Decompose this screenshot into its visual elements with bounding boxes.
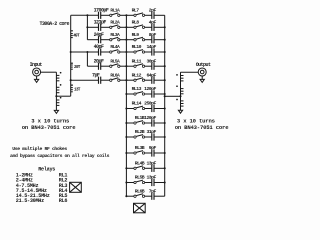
svg-text:on BN43-7051 core: on BN43-7051 core <box>22 124 77 131</box>
capacitor 30pF RL11 <box>152 63 154 70</box>
relay contact RL13 <box>134 92 145 96</box>
relay contact RL2B <box>134 135 145 139</box>
svg-text:123pF: 123pF <box>94 20 107 26</box>
phase dot T1b <box>60 84 62 86</box>
wire <box>145 167 152 169</box>
wire T1 tap to L1 bottom <box>56 95 70 97</box>
wire <box>154 152 165 154</box>
capacitor 64pF RL12 <box>152 77 154 84</box>
svg-text:40pF: 40pF <box>94 44 104 50</box>
wire <box>101 14 110 16</box>
transformer T2 windings 3 x 10 turns <box>181 76 184 107</box>
relay contact RL4B <box>134 166 145 170</box>
wire row 5 left <box>87 65 98 67</box>
phase dot T1c <box>60 97 62 99</box>
capacitor 13pF RL5B <box>152 179 154 186</box>
wire <box>120 14 127 16</box>
wire <box>145 136 152 138</box>
capacitor 24pF RL3A <box>99 36 101 43</box>
wire <box>154 182 165 184</box>
wire <box>154 39 165 41</box>
relay contact RL5B <box>134 180 145 184</box>
svg-text:64pF: 64pF <box>146 72 156 78</box>
capacitor 7pF RL6B <box>152 193 154 200</box>
wire <box>120 51 127 53</box>
phase dot T1a <box>60 72 62 74</box>
svg-text:49T: 49T <box>73 35 80 39</box>
bus middle <box>125 15 127 196</box>
svg-text:31pF: 31pF <box>146 129 156 135</box>
wire row 3 left <box>87 39 98 41</box>
inductor L1 13T winding <box>71 88 73 92</box>
svg-text:RL8: RL8 <box>132 20 140 26</box>
wire <box>120 39 127 41</box>
relay contact RL4A <box>110 50 120 54</box>
svg-text:RL5B: RL5B <box>135 175 145 181</box>
svg-text:2pF: 2pF <box>149 8 157 14</box>
capacitor 120pF RL1B <box>152 119 154 126</box>
capacitor 123pF RL2A <box>99 24 101 31</box>
svg-text:RL3A: RL3A <box>110 32 120 38</box>
svg-text:7pF: 7pF <box>149 188 157 194</box>
ground (output) <box>200 79 204 82</box>
relay coil box 1 <box>70 182 82 192</box>
svg-text:RL9: RL9 <box>132 32 140 38</box>
wire T2 winding line <box>180 72 182 110</box>
wire row 2 left <box>87 26 98 28</box>
relay contact RL11 <box>134 64 145 68</box>
wire <box>145 65 152 67</box>
capacitor 250pF RL14 <box>152 105 154 112</box>
capacitor 31pF RL2B <box>152 133 154 140</box>
wire <box>145 182 152 184</box>
wire <box>154 195 165 197</box>
svg-text:14pF: 14pF <box>146 44 156 50</box>
bus left upper <box>86 15 88 39</box>
output connector J2 <box>198 68 206 79</box>
wire <box>154 65 165 67</box>
wire <box>145 93 152 95</box>
wire <box>154 167 165 169</box>
wire <box>145 51 152 53</box>
svg-text:RL6B: RL6B <box>135 188 145 194</box>
phase dot T2a <box>176 74 178 76</box>
relay contact RL6A <box>110 78 120 82</box>
wire row 13 middle <box>126 182 134 184</box>
svg-text:13pF: 13pF <box>146 175 156 181</box>
phase dot 20T <box>71 62 73 64</box>
ground (T2) <box>178 110 182 113</box>
wire <box>145 108 152 110</box>
wire row 6 middle <box>126 79 134 81</box>
wire row 6 left <box>71 79 99 81</box>
wire row 7 middle <box>126 93 134 95</box>
wire <box>154 26 165 28</box>
wire row 9 middle <box>126 122 134 124</box>
wire <box>145 152 152 154</box>
wire row 10 middle <box>126 136 134 138</box>
relay contact RL12 <box>134 78 145 82</box>
wire row 3 middle <box>126 39 134 41</box>
phase dot 49T <box>71 30 73 32</box>
relay contact RL1B <box>134 121 145 125</box>
wire <box>154 14 165 16</box>
svg-text:and bypass capacitors on all r: and bypass capacitors on all relay coils <box>10 153 110 159</box>
bus right <box>164 15 166 196</box>
wire row 4 left <box>71 51 99 53</box>
svg-text:13pF: 13pF <box>146 161 156 167</box>
wire <box>120 65 127 67</box>
svg-text:Output: Output <box>196 62 211 68</box>
relay contact RL9 <box>134 37 145 41</box>
wire <box>145 79 152 81</box>
wire <box>154 136 165 138</box>
svg-text:RL2A: RL2A <box>110 20 120 26</box>
relay contact RL10 <box>134 50 145 54</box>
wire row 11 middle <box>126 152 134 154</box>
wire <box>101 79 110 81</box>
svg-text:4pF: 4pF <box>149 20 157 26</box>
node T2 tap <box>179 95 181 97</box>
relay coil box 2 <box>134 203 146 213</box>
svg-text:RL3B: RL3B <box>135 145 145 151</box>
svg-text:Relays: Relays <box>38 167 55 173</box>
svg-text:250pF: 250pF <box>144 101 156 107</box>
relay contact RL8 <box>134 25 145 29</box>
wire <box>154 93 165 95</box>
svg-text:21.5-30MHz: 21.5-30MHz <box>16 198 44 204</box>
svg-text:9pF: 9pF <box>149 145 157 151</box>
svg-text:RL12: RL12 <box>132 72 142 78</box>
wire input to T1 <box>41 71 57 73</box>
wire row 2 middle <box>126 26 134 28</box>
relay contact RL6B <box>134 194 145 198</box>
svg-text:T300A-2 core: T300A-2 core <box>40 21 70 27</box>
capacitor 13pF RL4B <box>152 165 154 172</box>
svg-text:RL2B: RL2B <box>135 129 145 135</box>
svg-text:13T: 13T <box>74 88 81 92</box>
relay contact RL1A <box>110 13 120 17</box>
svg-text:8pF: 8pF <box>149 32 157 38</box>
svg-text:RL6A: RL6A <box>110 72 120 78</box>
relay contact RL14 <box>134 106 145 110</box>
node T1 tap <box>55 95 57 97</box>
wire <box>154 79 165 81</box>
svg-text:on BN43-7051 core: on BN43-7051 core <box>175 124 230 131</box>
capacitor 40pF RL4A <box>99 48 101 55</box>
svg-text:RL5A: RL5A <box>110 58 120 64</box>
capacitor 8pF RL9 <box>152 36 154 43</box>
wire row 14 middle <box>126 195 134 197</box>
svg-text:RL11: RL11 <box>132 58 142 64</box>
relay contact RL2A <box>110 25 120 29</box>
capacitor 9pF RL3B <box>152 149 154 156</box>
svg-text:1700pF: 1700pF <box>94 8 109 14</box>
wire <box>145 14 152 16</box>
svg-text:Use multiple RF chokes: Use multiple RF chokes <box>12 146 67 152</box>
relay contact RL3B <box>134 151 145 155</box>
wire T2 to output <box>181 71 199 73</box>
wire row 4 middle <box>126 51 134 53</box>
wire <box>145 122 152 124</box>
svg-text:RL4A: RL4A <box>110 44 120 50</box>
wire row 8 middle <box>126 108 134 110</box>
relay frequency table <box>16 167 68 204</box>
svg-text:RL13: RL13 <box>132 86 142 92</box>
wire <box>101 65 110 67</box>
capacitor 14pF RL10 <box>152 48 154 55</box>
inductor L1 vertical line T300A-2 <box>70 15 72 96</box>
svg-text:20T: 20T <box>74 66 81 70</box>
inductor L1 20T winding <box>71 65 73 69</box>
capacitor 4pF RL8 <box>152 24 154 31</box>
wire row 1 left <box>71 14 99 16</box>
svg-text:RL10: RL10 <box>132 44 142 50</box>
svg-text:24pF: 24pF <box>94 32 104 38</box>
relay contact RL3A <box>110 37 120 41</box>
wire row 1 middle <box>126 14 134 16</box>
relay contact RL5A <box>110 64 120 68</box>
svg-text:30pF: 30pF <box>146 58 156 64</box>
phase dot 13T <box>71 84 73 86</box>
svg-text:RL4B: RL4B <box>135 161 145 167</box>
svg-text:RL14: RL14 <box>132 101 142 107</box>
wire <box>101 51 110 53</box>
svg-text:RL1A: RL1A <box>110 8 120 14</box>
capacitor 1700pF RL1A <box>99 12 101 19</box>
svg-text:RL7: RL7 <box>132 8 140 14</box>
wire <box>101 39 110 41</box>
transformer T1 windings 3 x 10 turns <box>56 75 59 105</box>
input connector J1 <box>33 68 41 79</box>
wire <box>145 26 152 28</box>
svg-text:RL6: RL6 <box>59 198 68 204</box>
phase dot T2c <box>176 99 178 101</box>
wire row 5 middle <box>126 65 134 67</box>
capacitor 20pF RL5A <box>99 63 101 70</box>
svg-text:20pF: 20pF <box>94 58 104 64</box>
capacitor 7pF RL6A <box>99 77 101 84</box>
svg-text:Input: Input <box>30 62 43 68</box>
svg-text:120pF: 120pF <box>144 86 156 92</box>
relay contact RL7 <box>134 13 145 17</box>
bus left lower <box>86 52 88 66</box>
svg-text:7pF: 7pF <box>92 72 100 78</box>
capacitor 2pF RL7 <box>152 12 154 19</box>
wire row 12 middle <box>126 167 134 169</box>
wire <box>154 122 165 124</box>
wire <box>145 195 152 197</box>
wire <box>145 39 152 41</box>
wire <box>120 79 127 81</box>
wire <box>154 108 165 110</box>
capacitor 120pF RL13 <box>152 90 154 97</box>
ground (input) <box>35 79 39 82</box>
node dots <box>70 51 72 53</box>
wire <box>154 51 165 53</box>
wire <box>101 26 110 28</box>
ground (T1) <box>54 110 58 113</box>
wire <box>120 26 127 28</box>
wire bus to T2 tap <box>165 95 181 97</box>
inductor L1 49T winding <box>71 34 73 38</box>
wire T1 winding line <box>55 72 57 110</box>
svg-text:120pF: 120pF <box>144 115 156 121</box>
phase dot T2b <box>176 85 178 87</box>
